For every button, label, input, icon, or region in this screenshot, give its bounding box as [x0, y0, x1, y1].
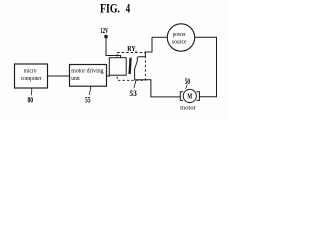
node 12V terminal dot — [104, 35, 108, 39]
svg-text:50: 50 — [185, 77, 190, 86]
svg-text:motor driving: motor driving — [71, 68, 104, 75]
micro computer U80 box — [15, 64, 48, 88]
wire relay contact to motor — [135, 80, 181, 97]
relay coil — [109, 58, 126, 75]
svg-text:power: power — [173, 31, 187, 38]
svg-text:micro: micro — [24, 68, 37, 75]
wire motor driving unit to relay coil — [107, 75, 111, 77]
svg-text:M: M — [187, 92, 192, 101]
leader for label 55 — [90, 86, 91, 95]
svg-text:53: 53 — [129, 89, 136, 98]
wire micro computer to motor driving unit — [48, 75, 70, 77]
relay contact 53 — [134, 57, 137, 80]
wire 12V to relay coil — [106, 38, 121, 58]
leader RY tick — [134, 51, 137, 53]
leader for label 53 — [134, 81, 136, 89]
wire power source right rail to motor — [195, 37, 217, 96]
title FIG. 4 — [100, 1, 131, 15]
svg-text:motor: motor — [180, 105, 196, 112]
svg-text:RY: RY — [127, 44, 136, 53]
power source PS circle — [167, 24, 194, 51]
svg-text:80: 80 — [28, 96, 34, 105]
svg-text:computer: computer — [21, 75, 43, 82]
leader for label 80 — [30, 88, 33, 95]
motor M 50 — [180, 89, 199, 102]
motor driving unit U55 box — [70, 65, 107, 87]
svg-text:unit: unit — [71, 75, 80, 82]
svg-text:FIG.: FIG. — [100, 1, 120, 15]
wire power source left lead — [152, 36, 167, 38]
svg-text:55: 55 — [85, 96, 91, 105]
leader for label 50 — [185, 85, 187, 89]
wire power source to relay contact (top feed) — [138, 37, 152, 57]
relay armature bar — [130, 58, 131, 74]
svg-text:12V: 12V — [100, 26, 109, 35]
svg-text:source: source — [172, 39, 187, 46]
relay RY dashed enclosure — [117, 53, 145, 81]
svg-text:4: 4 — [126, 1, 131, 15]
